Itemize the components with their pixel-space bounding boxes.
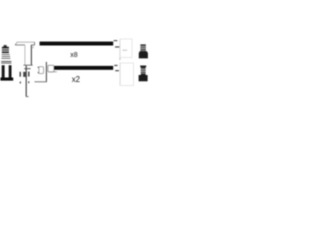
cable 1 (x8) (40, 42, 114, 46)
distributor boot row 1 (dark, ribbed) (139, 44, 148, 58)
row 2 right faint boot box (120, 63, 133, 86)
row 1 right thin stud line (119, 39, 121, 60)
row 2 right thin stud line (119, 63, 121, 86)
row 1 right faint boot box (120, 39, 132, 58)
right-angle boot outline (row 1) (15, 42, 35, 65)
svg-text:x8: x8 (70, 52, 78, 59)
U bracket socket (bottom-left) (0, 65, 13, 80)
straight boot outline (row 2 left) (48, 65, 57, 72)
row 1 right terminal ticks (114, 40, 120, 48)
row 2 right terminal ticks (114, 65, 119, 72)
coil tower flange lines (1, 54, 11, 63)
terminal stud line (row 2 left) (35, 62, 48, 82)
svg-text:x2: x2 (72, 75, 80, 84)
distributor boot row 2 (dark, ribbed) (139, 66, 148, 82)
terminal square (row 2 far left) (38, 67, 44, 74)
cable 2 (x2) (54, 66, 113, 70)
coil tower boot (top-left, ribbed) (2, 45, 9, 53)
spark plug (row 1, under stem) (20, 66, 31, 97)
